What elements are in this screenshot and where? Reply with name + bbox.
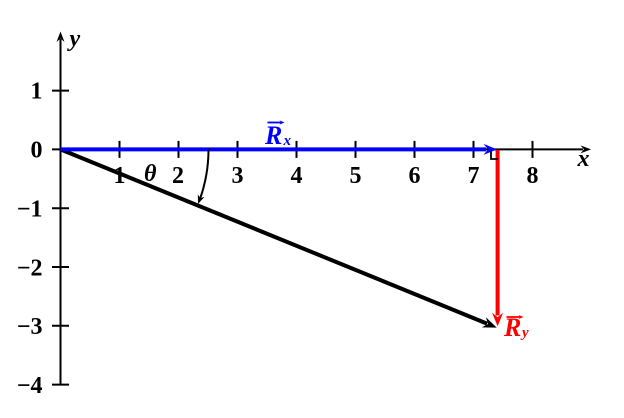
- tick x=4: [296, 141, 298, 158]
- angle theta arc: [200, 149, 209, 200]
- svg-text:5: 5: [350, 163, 362, 189]
- tick x=3: [237, 141, 239, 158]
- svg-text:4: 4: [291, 163, 303, 189]
- vector Ry arrowhead: [492, 313, 503, 327]
- svg-text:−2: −2: [17, 255, 43, 281]
- vector Ry (red): [496, 150, 500, 316]
- svg-text:7: 7: [468, 163, 480, 189]
- svg-text:y: y: [67, 26, 81, 52]
- tick x=5: [355, 141, 357, 158]
- tick x=8: [532, 141, 534, 158]
- svg-text:x: x: [577, 146, 590, 172]
- right-angle marker: [491, 152, 498, 160]
- tick x=1: [119, 141, 121, 158]
- svg-text:3: 3: [232, 163, 244, 189]
- vector Rx arrowhead: [484, 144, 498, 155]
- svg-text:−4: −4: [17, 373, 43, 399]
- tick y=-2: [52, 266, 69, 268]
- svg-text:2: 2: [172, 163, 184, 189]
- tick x=7: [473, 141, 475, 158]
- tick y=-4: [52, 384, 69, 386]
- svg-text:8: 8: [527, 163, 539, 189]
- vector R (black resultant): [61, 149, 488, 323]
- svg-text:0: 0: [31, 138, 43, 164]
- label Rx: [264, 120, 292, 150]
- svg-text:x: x: [283, 133, 292, 149]
- tick y=1: [52, 90, 69, 92]
- vector R arrowhead: [482, 317, 497, 327]
- tick x=6: [414, 141, 416, 158]
- x-axis arrowhead: [581, 145, 592, 153]
- svg-text:6: 6: [409, 163, 421, 189]
- svg-text:y: y: [520, 325, 529, 341]
- y-axis arrowhead: [57, 32, 65, 43]
- tick x=2: [178, 141, 180, 158]
- tick y=-3: [52, 325, 69, 327]
- svg-text:1: 1: [31, 79, 43, 105]
- tick y=-1: [52, 207, 69, 209]
- label Ry: [503, 313, 529, 342]
- vector Rx (blue): [61, 147, 487, 151]
- y-axis: [60, 39, 62, 385]
- svg-text:θ: θ: [144, 161, 157, 187]
- tick y=0: [52, 148, 69, 150]
- svg-text:R: R: [264, 121, 282, 150]
- arc arrowhead: [198, 194, 205, 204]
- x-axis: [61, 148, 584, 150]
- svg-text:−3: −3: [17, 314, 43, 340]
- svg-text:−1: −1: [17, 197, 43, 223]
